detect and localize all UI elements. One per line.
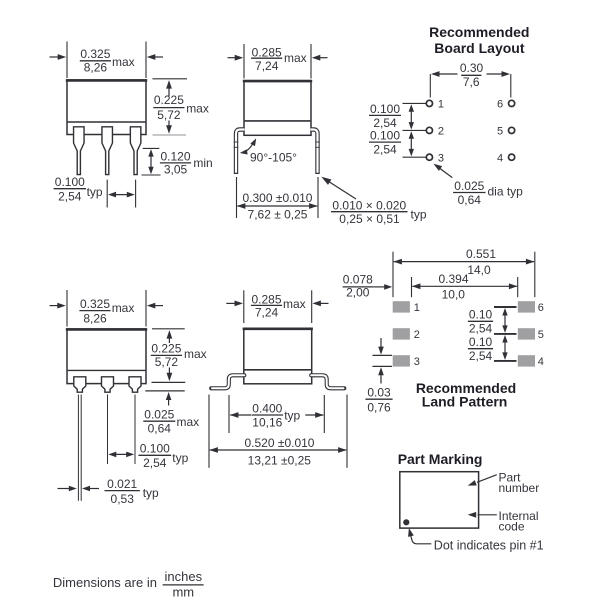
svg-text:0.010 × 0.020: 0.010 × 0.020: [332, 198, 406, 212]
svg-text:10,0: 10,0: [442, 288, 466, 302]
pin 1 lead width extension lines: [77, 395, 79, 501]
svg-text:0,64: 0,64: [458, 193, 482, 207]
svg-text:3: 3: [438, 152, 444, 164]
land pattern pad 4: [518, 355, 535, 366]
dimension 0.100/2,54 typ lead pitch extension lines: [106, 180, 108, 208]
svg-text:2,00: 2,00: [346, 286, 370, 300]
svg-text:Dimensions are in: Dimensions are in: [53, 575, 157, 590]
dimension 0.520 dimension line with arrows: [210, 449, 346, 451]
svg-text:0.225: 0.225: [151, 342, 181, 356]
DIP front view pin 2: [102, 127, 113, 175]
svg-text:dia typ: dia typ: [488, 185, 524, 199]
svg-text:max: max: [112, 55, 135, 69]
svg-text:2,54: 2,54: [373, 143, 397, 157]
svg-text:min: min: [193, 156, 212, 170]
svg-text:10,16: 10,16: [252, 415, 282, 429]
svg-text:0,25 × 0,51: 0,25 × 0,51: [339, 212, 400, 226]
land pattern row ticks right: [494, 306, 517, 308]
svg-text:0.394: 0.394: [438, 272, 468, 286]
dimension 0.225/5,72 max arrows: [168, 86, 170, 96]
dimension 0.400/10,16 typ extension lines: [228, 395, 230, 433]
dimension 0.100/2,54 row pitch arrows upper: [410, 109, 412, 125]
SMD front view body seam line: [68, 369, 146, 371]
board layout row ticks: [403, 102, 426, 104]
DIP side view body: [244, 81, 311, 136]
dimension 0.285/7,24 max arrows: [228, 57, 238, 59]
svg-text:max: max: [184, 347, 207, 361]
dimension 0.300 lead spacing extension lines: [236, 177, 238, 218]
dimension 0.025/0,64 max arrows: [168, 398, 170, 406]
svg-text:5,72: 5,72: [155, 355, 179, 369]
leader arrow to part number area: [477, 475, 497, 483]
svg-text:7,62 ± 0,25: 7,62 ± 0,25: [248, 208, 308, 222]
svg-text:0.520 ±0.010: 0.520 ±0.010: [245, 436, 315, 450]
SMD front view pin 1 stub: [74, 377, 86, 392]
svg-text:mm: mm: [172, 585, 194, 600]
svg-text:Dot indicates pin #1: Dot indicates pin #1: [434, 539, 544, 553]
svg-text:max: max: [283, 297, 306, 311]
board layout hole pin 4: [509, 154, 515, 160]
svg-text:max: max: [177, 415, 200, 429]
svg-text:90°-105°: 90°-105°: [250, 151, 297, 165]
svg-text:0.100: 0.100: [370, 129, 400, 143]
svg-text:0.10: 0.10: [469, 308, 493, 322]
DIP front view pin 1: [74, 127, 85, 175]
svg-text:4: 4: [497, 152, 503, 164]
DIP side view body seam line: [245, 120, 311, 122]
dimension 0.285/7,24 max extension lines: [243, 44, 245, 79]
dimension 0.10/2,54 arrows upper: [504, 313, 506, 329]
dimension 0.394/10,0 dimension line with arrows: [412, 285, 517, 287]
svg-text:5,72: 5,72: [157, 108, 181, 122]
svg-text:4: 4: [538, 356, 544, 368]
SMD side view body: [244, 328, 312, 383]
svg-text:5: 5: [497, 126, 503, 138]
svg-text:0.325: 0.325: [80, 297, 110, 311]
svg-text:typ: typ: [172, 451, 188, 465]
dimension 0.03/0,76 pad height ticks: [373, 354, 393, 356]
dimension 0.325/8,26 max arrows: [50, 56, 61, 58]
land pattern pad 2: [393, 328, 410, 339]
DIP front view pin 3: [130, 127, 141, 175]
svg-text:0.30: 0.30: [460, 61, 484, 75]
board layout hole pin 1: [426, 100, 432, 106]
pin 2 center extension line: [107, 395, 109, 465]
svg-text:max: max: [112, 301, 135, 315]
svg-text:max: max: [284, 51, 307, 65]
svg-text:7,24: 7,24: [255, 306, 279, 320]
svg-text:2,54: 2,54: [469, 322, 493, 336]
left lead bend ticks: [234, 141, 238, 143]
svg-text:inches: inches: [165, 569, 203, 584]
svg-text:max: max: [186, 102, 209, 116]
svg-text:13,21 ±0,25: 13,21 ±0,25: [248, 453, 312, 467]
dimension 0.520 extension lines: [208, 395, 210, 468]
svg-text:3,05: 3,05: [164, 162, 188, 176]
dimension 0.021/0,53 typ arrows lead width: [58, 488, 72, 490]
svg-text:8,26: 8,26: [84, 60, 108, 74]
svg-text:0,76: 0,76: [367, 401, 391, 415]
svg-text:0.025: 0.025: [144, 407, 174, 421]
DIP front view body seam line: [68, 121, 146, 123]
svg-text:0.03: 0.03: [367, 385, 391, 399]
SMD side view left gull-wing lead: [211, 375, 244, 388]
svg-text:0.285: 0.285: [251, 293, 281, 307]
land pattern pad 1: [393, 301, 410, 312]
dimension 0.400/10,16 typ arrows: [230, 412, 239, 418]
svg-text:1: 1: [438, 99, 444, 111]
svg-text:typ: typ: [284, 408, 300, 422]
svg-text:2: 2: [438, 126, 444, 138]
svg-text:5: 5: [538, 329, 544, 341]
SMD front view body: [67, 329, 146, 384]
dimension 0.225/5,72 max ticks: [153, 78, 188, 80]
dimension 0.120/3,05 min arrows: [150, 154, 152, 170]
board layout hole pin 6: [509, 100, 515, 106]
land pattern pad 3: [393, 355, 410, 366]
svg-text:7,6: 7,6: [463, 75, 480, 89]
svg-text:6: 6: [538, 302, 544, 314]
svg-text:0.078: 0.078: [343, 273, 373, 287]
land pattern pad 5: [518, 328, 535, 339]
DIP side view right lead: [311, 130, 318, 175]
svg-text:6: 6: [497, 99, 503, 111]
dimension 0.100/2,54 typ arrows: [113, 194, 130, 196]
dimension 0.325/8,26 max extension lines (SMD): [66, 290, 68, 327]
svg-text:number: number: [499, 481, 540, 495]
dimension 0.120/3,05 min ticks: [143, 147, 160, 149]
svg-text:code: code: [499, 520, 525, 534]
dimension 0.394/10,0 extension lines: [411, 277, 413, 297]
svg-text:0.10: 0.10: [469, 335, 493, 349]
DIP side view left lead: [236, 130, 245, 175]
svg-text:typ: typ: [87, 185, 103, 199]
svg-text:7,24: 7,24: [255, 59, 279, 73]
svg-text:0.551: 0.551: [466, 247, 496, 261]
svg-text:0.100: 0.100: [370, 102, 400, 116]
svg-text:2,54: 2,54: [143, 456, 167, 470]
dimension 0.551/14,0 dimension line with arrows: [394, 261, 534, 263]
dimension 0.325/8,26 max extension lines: [66, 42, 68, 79]
svg-text:typ: typ: [411, 208, 427, 222]
dimension 0.285/7,24 max extension lines (SMD side): [243, 290, 245, 323]
DIP package front view body: [67, 80, 146, 135]
svg-text:2,54: 2,54: [469, 349, 493, 363]
svg-text:Board Layout: Board Layout: [434, 40, 525, 56]
svg-text:Land Pattern: Land Pattern: [422, 394, 508, 410]
dimension 0.100/2,54 row pitch arrows lower: [410, 136, 412, 152]
SMD front view pin 3 stub: [129, 377, 141, 392]
dimension 0.10/2,54 arrows lower: [504, 340, 506, 356]
board layout hole pin 5: [509, 127, 515, 133]
svg-text:2: 2: [414, 329, 420, 341]
svg-text:typ: typ: [143, 486, 159, 500]
dimension 0.551/14,0 extension lines: [392, 252, 394, 298]
dimension 0.225/5,72 max arrows (SMD): [168, 336, 170, 343]
svg-text:3: 3: [414, 356, 420, 368]
svg-text:0.100: 0.100: [55, 175, 85, 189]
leader arrow to lead cross-section: [329, 181, 357, 199]
svg-text:0.120: 0.120: [160, 149, 190, 163]
board layout hole pin 2: [426, 127, 432, 133]
dimension 0.025/0,64 max ticks: [152, 381, 186, 383]
svg-text:0.400: 0.400: [252, 401, 282, 415]
svg-text:0,64: 0,64: [148, 422, 172, 436]
svg-text:0.100: 0.100: [140, 442, 170, 456]
dimension 0.03/0,76 arrows: [380, 338, 382, 349]
svg-text:1: 1: [414, 302, 420, 314]
land pattern pad 6: [518, 301, 535, 312]
dimension 0.285/7,24 max arrows (SMD side): [226, 302, 237, 304]
leader arrow to pin 1 dot: [410, 533, 431, 544]
right lead bend ticks: [315, 141, 319, 143]
leader arrow to hole pin 3: [440, 169, 452, 178]
pin 1 indicator dot: [403, 519, 409, 525]
part marking outline rectangle: [400, 472, 479, 528]
svg-text:Recommended: Recommended: [429, 24, 529, 40]
svg-text:0.021: 0.021: [107, 477, 137, 491]
svg-text:14,0: 14,0: [467, 263, 491, 277]
leader arrow to internal code area: [478, 514, 497, 516]
board layout hole pin 3: [426, 154, 432, 160]
SMD front view pin 2 stub: [102, 377, 114, 392]
svg-text:0.285: 0.285: [252, 45, 282, 59]
svg-text:0.025: 0.025: [454, 179, 484, 193]
svg-text:Part Marking: Part Marking: [398, 451, 483, 467]
dimension 0.30/7,6 arrows: [436, 73, 458, 75]
dimension 0.225/5,72 max ticks (SMD): [152, 328, 185, 330]
svg-text:2,54: 2,54: [58, 189, 82, 203]
svg-text:0.325: 0.325: [80, 47, 110, 61]
pin 3 center extension line: [134, 395, 136, 465]
dimension 0.30/7,6 hole column spacing lines: [429, 74, 431, 98]
svg-text:0,53: 0,53: [111, 492, 135, 506]
dimension 0.325/8,26 max arrows (SMD): [50, 305, 60, 307]
svg-text:0.300 ±0.010: 0.300 ±0.010: [243, 191, 313, 205]
dimension 0.300 dimension line with arrows: [237, 205, 317, 207]
svg-text:8,26: 8,26: [83, 312, 107, 326]
svg-text:0.225: 0.225: [154, 93, 184, 107]
dimension 0.100/2,54 typ arrows (SMD pin pitch): [113, 453, 129, 455]
lead bend angle 90-105 degree arc arrow: [242, 142, 255, 153]
SMD side view right gull-wing lead: [311, 375, 344, 388]
SMD side view body seam line: [244, 369, 311, 371]
